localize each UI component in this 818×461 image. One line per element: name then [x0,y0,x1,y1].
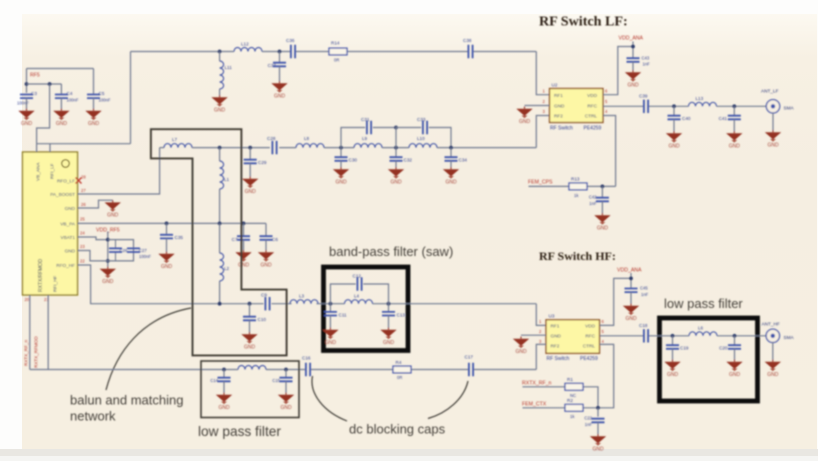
capacitor C39 [644,100,648,113]
wire GND pin stub [525,105,550,107]
node [248,146,252,150]
svg-text:VB_PA: VB_PA [60,221,76,226]
svg-text:R2: R2 [567,398,573,403]
svg-text:C22: C22 [584,416,592,421]
svg-text:R13: R13 [571,177,580,182]
svg-text:100nF: 100nF [99,98,111,103]
wire up to LF switch RF2 [536,116,549,148]
ground [443,167,459,185]
capacitor C4 [60,84,62,95]
capacitor C33 [423,121,427,134]
ground [594,213,610,231]
inductor L9 [354,144,382,148]
annotation pointer curve right [428,381,468,419]
capacitor C15 [285,370,287,378]
capacitor C6 [265,223,267,236]
svg-text:L9: L9 [362,136,368,141]
svg-text:C33: C33 [417,117,426,122]
ic U3 body [546,320,600,354]
svg-text:low pass filter: low pass filter [664,296,743,311]
wire to IC top pins [37,84,50,144]
svg-text:dc blocking caps: dc blocking caps [349,422,446,437]
wire top branch C31 [341,128,396,148]
svg-text:VDD_ANA: VDD_ANA [619,36,644,42]
svg-text:RXTX_RF_n: RXTX_RF_n [522,381,552,387]
wire up to HF switch RF2 [536,344,546,369]
svg-text:C17: C17 [465,355,474,360]
svg-text:C42: C42 [589,195,597,200]
annotation thin box low pass filter LF [201,361,299,418]
svg-text:C35: C35 [175,235,184,240]
svg-text:C4: C4 [67,91,73,96]
svg-text:RFI_LF: RFI_LF [50,163,55,179]
ground [211,95,227,113]
node [339,146,343,150]
svg-text:PE4259: PE4259 [584,126,602,132]
capacitor C14 [223,370,225,378]
svg-text:C13: C13 [397,313,406,318]
wire RFI rail to top pins [37,143,131,145]
ground [235,250,251,268]
wire bottom rail [30,369,537,371]
capacitor C3 [20,95,33,99]
svg-text:RF5: RF5 [30,73,40,79]
svg-text:CTRL: CTRL [583,343,596,348]
svg-text:0R: 0R [397,375,402,380]
capacitor C34 [450,148,452,158]
capacitor C18 [644,329,648,342]
svg-text:RF2: RF2 [551,343,560,348]
svg-text:RF2: RF2 [554,114,563,119]
ground [513,337,529,355]
node [165,222,169,226]
node [248,302,252,306]
capacitor C22 [597,408,599,417]
ground [241,332,257,350]
ground [242,177,258,195]
svg-text:C9: C9 [261,293,267,298]
capacitor C30 [340,148,342,158]
ground [333,167,349,185]
wire VDD to VDD_ANA [603,47,633,95]
svg-text:FEM_CPS: FEM_CPS [528,180,553,186]
svg-text:L2: L2 [224,266,230,271]
node [222,368,226,372]
wire VBAT1 to VDD_RF5 [78,237,108,240]
svg-text:100nF: 100nF [67,98,79,103]
svg-text:VBAT1: VBAT1 [60,235,75,240]
svg-text:1nF: 1nF [641,292,649,297]
svg-text:L11: L11 [225,65,233,70]
node [284,368,288,372]
wire left vertical riser [130,52,132,144]
wire bypass loop [108,240,134,261]
ground [388,167,404,185]
ground [765,130,781,148]
svg-text:RF Switch: RF Switch [550,126,573,132]
annotation thick box [324,267,409,351]
svg-text:L3: L3 [299,294,305,299]
svg-text:L13: L13 [696,96,704,101]
svg-text:L10: L10 [417,136,425,141]
svg-text:RXTX_RFMOD: RXTX_RFMOD [34,336,39,368]
svg-text:CTRL: CTRL [585,114,598,119]
ground [516,107,532,125]
svg-text:SMA: SMA [784,335,795,340]
svg-text:ANT_LF: ANT_LF [761,89,779,94]
wire VDD_ANA vertical [632,42,634,59]
capacitor C31 [367,121,371,134]
svg-text:C45: C45 [640,286,648,291]
resistor R1 [565,383,583,390]
svg-text:RF Switch HF:: RF Switch HF: [539,249,616,263]
svg-text:L6: L6 [698,326,704,331]
svg-text:GND: GND [554,104,565,109]
wire VDD_ANA vertical [630,273,632,289]
svg-text:L8: L8 [304,136,310,141]
ic U1 body [23,152,78,295]
wire VB_PA rail [78,222,267,224]
svg-text:C7: C7 [232,237,238,242]
svg-text:VB_ANA: VB_ANA [36,162,41,181]
svg-text:26: 26 [81,202,86,207]
svg-text:1nF: 1nF [585,422,593,427]
svg-text:PE4259: PE4259 [580,356,598,362]
inductor L5 [238,366,266,370]
svg-text:C26: C26 [120,248,128,253]
inductor L11 [219,52,221,96]
capacitor C37 [279,52,281,63]
svg-text:C34: C34 [459,158,468,163]
wire bottom pins of U1 [30,295,48,370]
svg-text:C31: C31 [361,117,370,122]
svg-text:C16: C16 [302,356,311,361]
svg-text:PA_BOOST: PA_BOOST [50,192,75,197]
ground [625,70,641,88]
capacitor C32 [395,148,397,158]
node [601,185,605,189]
svg-text:C28: C28 [267,136,276,141]
svg-text:C11: C11 [339,313,348,318]
wire top branch with C12 [330,284,388,304]
resistor R2 [565,404,583,411]
svg-text:GND: GND [65,206,76,211]
capacitor C9 series [265,297,269,310]
svg-text:C43: C43 [642,56,650,61]
capacitor C35 [166,223,168,234]
svg-text:R14: R14 [331,41,340,46]
svg-text:1nF: 1nF [589,201,597,206]
svg-text:C41: C41 [719,116,728,121]
svg-text:U3: U3 [549,314,555,319]
svg-text:20: 20 [25,297,30,302]
pin-1 circle [62,160,70,168]
capacitor C12 [357,277,361,290]
svg-text:C36: C36 [286,38,295,43]
wire down to LF switch RF1 [536,52,549,95]
capacitor C42 [601,186,603,197]
node A [329,302,333,306]
resistor R14 [329,48,347,55]
svg-text:27: 27 [81,188,86,193]
node [48,82,52,86]
capacitor C11 [329,304,331,312]
svg-text:C29: C29 [258,160,267,165]
svg-text:VDD_ANA: VDD_ANA [617,268,642,274]
svg-text:RFC: RFC [587,104,597,109]
svg-text:network: network [70,409,116,424]
wire RFC to antenna [600,335,767,337]
capacitor C28 [272,141,276,154]
svg-text:RF Switch LF:: RF Switch LF: [539,14,628,30]
svg-text:C3: C3 [31,91,37,96]
wire RFO_HF down to HF path [78,265,264,304]
ground [216,393,232,411]
inductor L4 [345,300,373,304]
svg-text:C32: C32 [404,158,413,163]
wire down to HF switch RF1 [536,304,546,326]
node [732,104,736,108]
inductor L1 [219,148,221,224]
wire RFI_LF stub [37,144,50,152]
resistor R4 [393,366,411,373]
node [218,222,222,226]
svg-text:C14: C14 [210,378,218,383]
svg-text:R4: R4 [396,360,402,365]
svg-text:RXTX/RFMOD: RXTX/RFMOD [38,259,44,292]
svg-text:24: 24 [80,231,85,236]
svg-text:C40: C40 [682,116,691,121]
svg-text:U2: U2 [552,83,558,88]
svg-text:L7: L7 [172,137,178,142]
svg-text:RXTX_RF_n: RXTX_RF_n [24,340,29,366]
annotation pointer curve left [312,376,347,421]
capacitor C26 [115,240,117,261]
inductor L3 [290,300,318,304]
capacitor C41 [733,106,735,115]
node [242,222,246,226]
inductor L2 [219,223,221,303]
inductor L8 [296,144,324,148]
svg-text:0R: 0R [334,58,339,63]
svg-text:C10: C10 [258,317,267,322]
wire VDD_RF5 vertical [107,232,109,267]
svg-text:RFO_HF: RFO_HF [56,263,75,268]
svg-text:C38: C38 [463,38,472,43]
capacitor C27 [127,248,140,252]
svg-text:C18: C18 [639,323,648,328]
svg-text:C27: C27 [139,248,147,253]
ground [590,434,606,452]
wire FEM_CPS [529,185,616,187]
node [218,50,222,54]
capacitor C17 [469,363,473,376]
svg-text:1nF: 1nF [643,62,651,67]
wire GND pin stub [521,334,546,336]
wire VDD to VDD_ANA [600,278,632,325]
capacitor C10 [249,304,251,317]
svg-text:C37: C37 [268,63,277,68]
inductor L7 [160,147,164,149]
svg-text:C39: C39 [639,94,648,99]
svg-text:RF1: RF1 [551,324,560,329]
inductor L13 [689,102,717,106]
svg-text:RFI_HF: RFI_HF [53,275,58,292]
capacitor C13 [388,304,390,312]
capacitor C43 [627,58,640,62]
svg-text:100nF: 100nF [139,254,151,259]
svg-text:100nF: 100nF [17,101,29,106]
svg-text:RFC: RFC [585,334,595,339]
svg-text:SMA: SMA [784,106,795,111]
svg-text:28: 28 [81,175,86,180]
annotation balun box [151,129,287,355]
ground [380,328,396,346]
ground [765,360,781,378]
wire PA_BOOST [78,148,160,194]
wire CTRL down [603,116,616,187]
svg-text:C19: C19 [680,346,689,351]
inductor L10 [409,144,437,148]
node [394,146,398,150]
wire after C9 [272,303,537,305]
capacitor C29 [249,148,251,160]
capacitor C40 [673,106,675,115]
node [218,302,222,306]
capacitor C5 [93,69,95,95]
inductor L6 [689,332,717,336]
node [596,406,600,410]
ground [158,252,174,270]
wire row2 [192,147,536,149]
svg-text:RF1: RF1 [554,93,563,98]
capacitor C16 [306,363,310,376]
node B [387,302,391,306]
node [733,334,737,338]
node [671,334,675,338]
svg-text:ANT_HF: ANT_HF [762,322,780,327]
ground [726,360,742,378]
svg-text:C5: C5 [99,91,105,96]
wire top branch C33 [396,128,451,148]
ground [271,81,287,99]
ground [53,109,69,127]
wire RXTX_RF_n [523,387,599,408]
svg-text:GND: GND [65,249,76,254]
svg-text:L1: L1 [224,177,230,182]
svg-text:GND: GND [551,334,562,339]
wire RF5 branch [27,83,62,85]
node [218,146,222,150]
ic U2 body [550,89,604,123]
wire RF5 top rail [27,68,94,70]
annotation thick box HF [660,318,758,401]
capacitor C19 [672,336,674,345]
svg-text:L4: L4 [354,294,360,299]
svg-text:VDD: VDD [587,93,598,98]
node RF5 [25,82,29,86]
svg-text:L12: L12 [241,42,249,47]
ground [664,360,680,378]
wire GND pin 26 [78,200,113,208]
capacitor C45 [625,289,638,293]
svg-text:FEM_CTX: FEM_CTX [522,402,547,408]
svg-text:band-pass filter (saw): band-pass filter (saw) [329,244,453,259]
ground [258,250,274,268]
svg-text:C20: C20 [719,346,728,351]
ground [85,109,101,127]
svg-text:RF Switch: RF Switch [547,356,570,362]
svg-text:VDD: VDD [585,324,596,329]
resistor R13 [569,183,587,190]
ground [322,328,338,346]
capacitor C36 [291,45,295,58]
svg-text:RFO_LF: RFO_LF [57,179,75,184]
ground [18,109,34,127]
svg-text:balun and matching: balun and matching [70,393,183,408]
ground [100,267,116,285]
ground [726,131,742,149]
capacitor C20 [734,336,736,345]
svg-text:C6: C6 [272,237,278,242]
inductor L12 [234,48,262,52]
svg-text:C12: C12 [353,274,362,279]
svg-text:23: 23 [80,244,85,249]
capacitor C7 [243,223,245,236]
node [449,146,453,150]
wire RFC to antenna [603,105,766,107]
annotation balun pointer curve [106,308,191,390]
svg-text:R1: R1 [567,377,573,382]
wire left vertical [26,69,28,93]
wire top rail [131,51,537,53]
wire CTRL down [598,344,614,407]
ground [278,393,294,411]
ground [666,131,682,149]
ground [105,200,121,218]
ground [623,304,639,322]
capacitor C38 [468,45,472,58]
svg-text:C15: C15 [272,378,280,383]
svg-text:low pass filter: low pass filter [198,424,281,439]
svg-text:C30: C30 [349,158,358,163]
wire FEM_CTX [523,407,599,409]
node [672,104,676,108]
svg-text:25: 25 [80,217,85,222]
node [278,50,282,54]
wire GND pin 23 [78,251,108,261]
svg-text:22: 22 [80,259,85,264]
